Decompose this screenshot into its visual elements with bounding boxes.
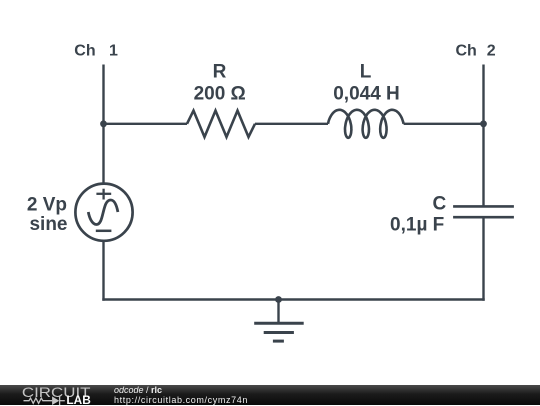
footer bar — [0, 385, 540, 406]
svg-text:C: C — [432, 194, 446, 215]
wire L to node Ch2 — [404, 123, 484, 125]
svg-text:sine: sine — [29, 214, 67, 235]
junction ground node — [275, 296, 282, 303]
resistor R — [187, 111, 255, 137]
footer circuit name text — [114, 386, 248, 406]
voltage source V1 plus sign — [96, 189, 111, 200]
wire bottom horizontal — [102, 298, 484, 300]
voltage source V1 sine symbol — [88, 200, 118, 225]
wire node Ch1 to R — [104, 123, 188, 125]
wire Ch1 vertical top — [102, 65, 104, 185]
junction node Ch2 — [480, 120, 487, 127]
svg-text:2 Vp: 2 Vp — [27, 194, 67, 215]
svg-text:Ch2: Ch2 — [456, 43, 496, 60]
wire Ch1 vertical bottom — [102, 240, 104, 301]
ground bar 3 — [273, 340, 284, 343]
svg-text:0,1µ F: 0,1µ F — [390, 215, 444, 236]
capacitor C top plate — [453, 205, 514, 208]
svg-text:R: R — [213, 62, 227, 83]
inductor L — [328, 110, 404, 138]
wire Ch2 vertical top — [482, 65, 484, 207]
voltage source V1 circle — [75, 184, 132, 241]
svg-text:L: L — [360, 62, 372, 83]
voltage source V1 minus sign — [96, 230, 112, 233]
ground bar 1 — [254, 322, 304, 325]
ground stub wire — [277, 300, 279, 324]
wire R to L — [255, 123, 328, 125]
svg-text:LAB: LAB — [66, 392, 91, 405]
junction node Ch1 — [100, 120, 107, 127]
capacitor C bottom plate — [453, 216, 514, 219]
ground bar 2 — [264, 331, 294, 334]
svg-text:0,044 H: 0,044 H — [333, 84, 400, 105]
svg-text:Ch1: Ch1 — [74, 42, 118, 59]
CircuitLab logo — [0, 385, 110, 406]
wire C to bottom — [482, 217, 484, 301]
svg-text:200 Ω: 200 Ω — [194, 84, 246, 105]
